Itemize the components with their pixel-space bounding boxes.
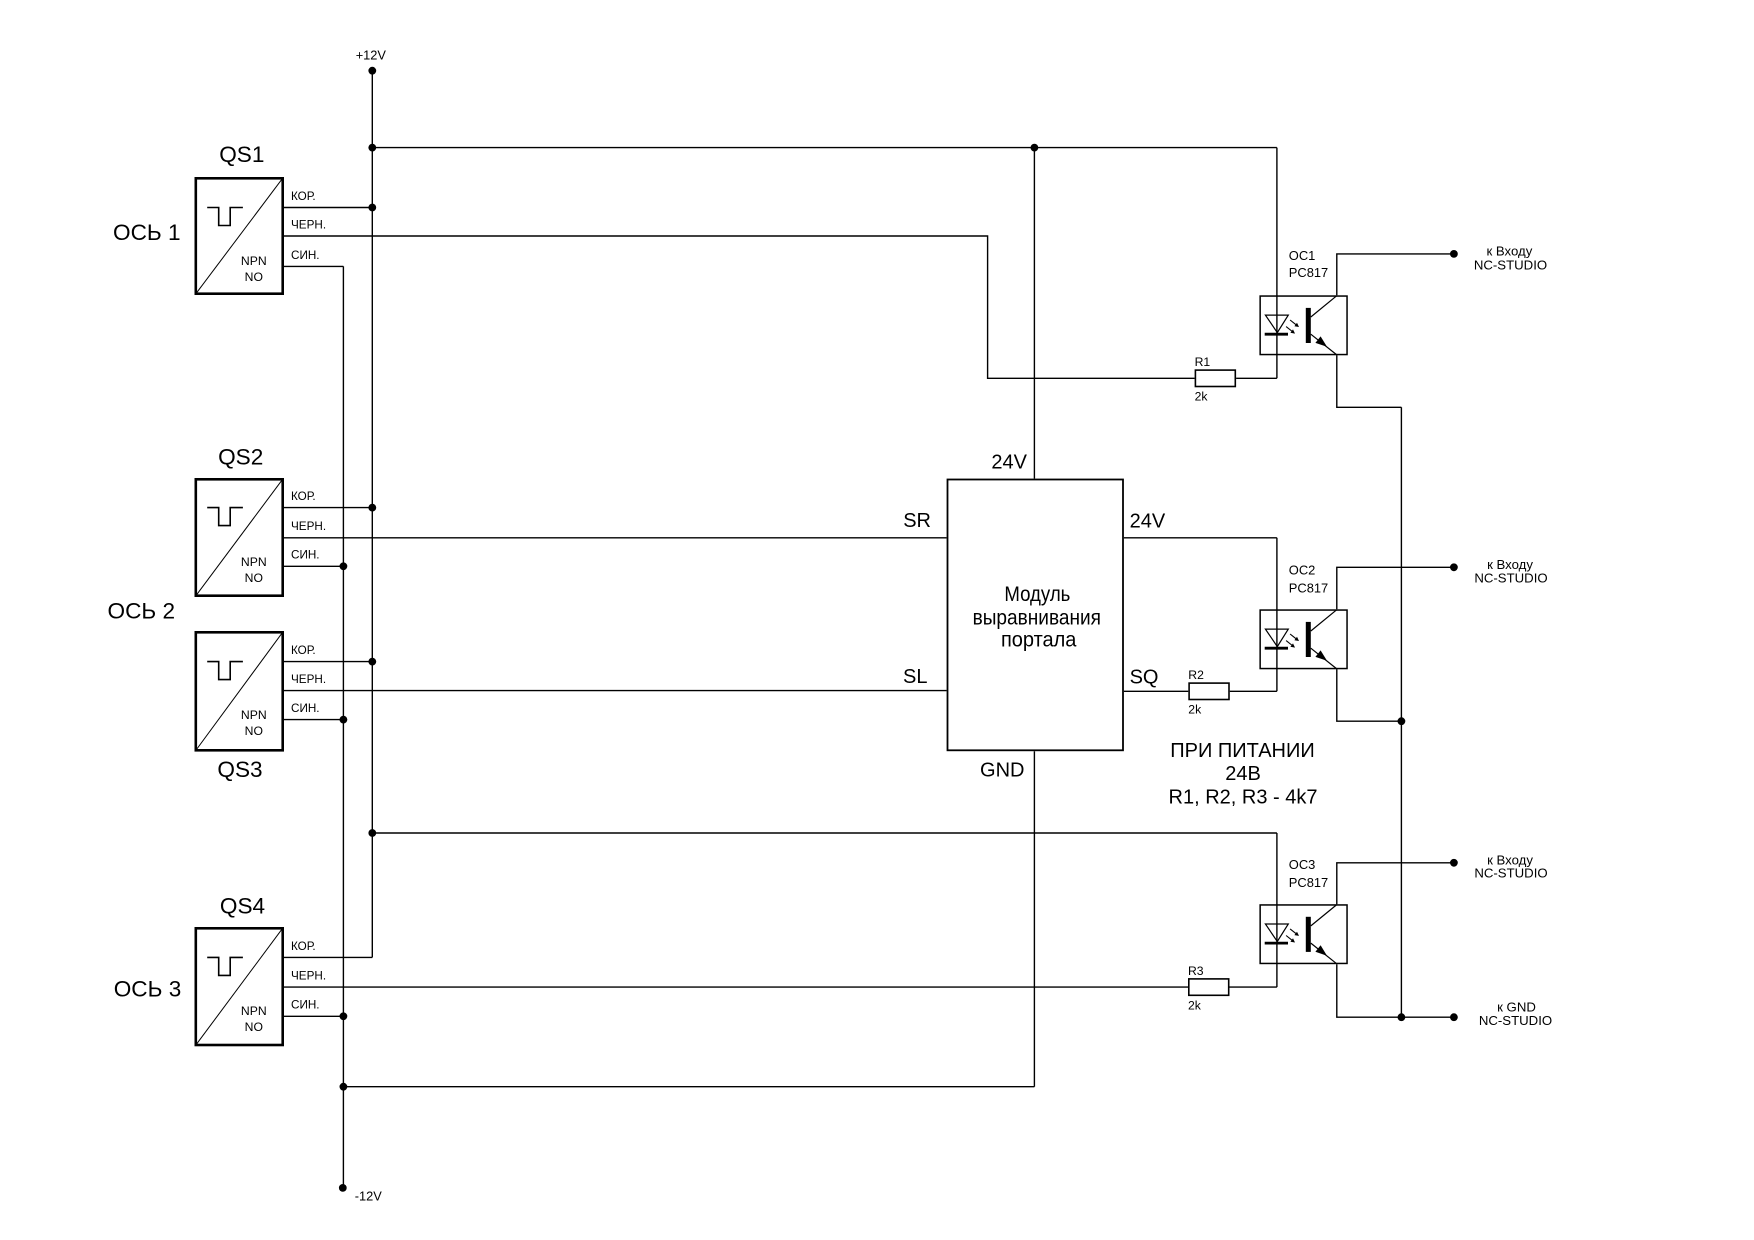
terminal к Входу NC-STUDIO (OC3) bbox=[1450, 859, 1458, 867]
svg-text:R1: R1 bbox=[1195, 355, 1211, 369]
wire top feed from +12V bus to OC1 anode bbox=[372, 147, 1277, 149]
svg-text:24V: 24V bbox=[991, 451, 1027, 473]
label к Входу NC-STUDIO (OC2) bbox=[1474, 557, 1547, 586]
wire QS1 КОР to +12V bus bbox=[284, 207, 372, 209]
svg-text:КОР.: КОР. bbox=[291, 940, 316, 953]
svg-text:NC-STUDIO: NC-STUDIO bbox=[1474, 571, 1547, 586]
svg-text:PC817: PC817 bbox=[1289, 265, 1328, 280]
wire +12V bus to OC3 anode bbox=[372, 832, 1277, 834]
svg-text:NPN: NPN bbox=[241, 1004, 267, 1018]
junction GND return / blue bus bbox=[340, 1083, 348, 1091]
junction QS3 СИН / blue bus bbox=[340, 716, 348, 724]
svg-text:NO: NO bbox=[245, 571, 263, 585]
junction QS2 СИН / blue bus bbox=[340, 562, 348, 570]
wire OC3 emitter to GND terminal bbox=[1337, 964, 1454, 1017]
svg-text:PC817: PC817 bbox=[1289, 580, 1328, 595]
svg-text:2k: 2k bbox=[1188, 998, 1202, 1012]
svg-text:КОР.: КОР. bbox=[291, 644, 316, 657]
svg-text:NPN: NPN bbox=[241, 555, 267, 569]
wire OC3 collector to terminal bbox=[1337, 863, 1454, 904]
wire module 24V output to OC2 anode bbox=[1124, 537, 1277, 539]
svg-text:КОР.: КОР. bbox=[291, 490, 316, 503]
junction QS3 КОР / +12V bus bbox=[368, 658, 376, 666]
sensor QS1 (inductive proximity switch) bbox=[196, 178, 283, 293]
terminal -12V bbox=[339, 1184, 347, 1192]
svg-text:NC-STUDIO: NC-STUDIO bbox=[1474, 866, 1547, 881]
svg-text:SR: SR bbox=[903, 510, 931, 532]
label к GND NC-STUDIO bbox=[1479, 999, 1552, 1028]
wire R2 to LED bbox=[1230, 690, 1277, 692]
wire QS1 ЧЕРН to R1 bbox=[284, 236, 1195, 378]
svg-text:24В: 24В bbox=[1225, 763, 1261, 785]
wire NC-STUDIO GND bus bbox=[1400, 407, 1402, 1017]
svg-text:R3: R3 bbox=[1188, 964, 1204, 978]
svg-text:2k: 2k bbox=[1195, 390, 1209, 404]
terminal к Входу NC-STUDIO (OC2) bbox=[1450, 563, 1458, 571]
sensor QS3 (inductive proximity switch) bbox=[196, 632, 283, 750]
svg-text:SL: SL bbox=[903, 666, 927, 688]
wire OC3 LED anode drop bbox=[1276, 833, 1278, 987]
wire OC1 emitter to GND bus bbox=[1337, 355, 1402, 407]
svg-text:ЧЕРН.: ЧЕРН. bbox=[291, 520, 326, 533]
wire R1 to LED bbox=[1236, 377, 1277, 379]
svg-text:PC817: PC817 bbox=[1289, 875, 1328, 890]
wire QS4 КОР to +12V bus end bbox=[284, 956, 372, 958]
svg-text:ЧЕРН.: ЧЕРН. bbox=[291, 970, 326, 983]
wire OC2 emitter to GND bus bbox=[1337, 669, 1402, 721]
wire QS2 ЧЕРН to module SR bbox=[284, 537, 947, 539]
svg-text:NC-STUDIO: NC-STUDIO bbox=[1474, 258, 1547, 273]
svg-text:КОР.: КОР. bbox=[291, 190, 316, 203]
svg-text:QS4: QS4 bbox=[220, 894, 265, 919]
svg-text:к GND: к GND bbox=[1497, 999, 1536, 1014]
svg-text:к Входу: к Входу bbox=[1487, 557, 1533, 572]
svg-text:СИН.: СИН. bbox=[291, 999, 320, 1012]
label NPN NO (QS3) bbox=[241, 708, 267, 738]
svg-text:ЧЕРН.: ЧЕРН. bbox=[291, 218, 326, 231]
svg-text:SQ: SQ bbox=[1130, 666, 1159, 688]
terminal к Входу NC-STUDIO (OC1) bbox=[1450, 250, 1458, 258]
wire module 24V top pin bbox=[1033, 148, 1035, 479]
wire QS4 СИН to blue bus bbox=[284, 1015, 343, 1017]
svg-text:ОСЬ 2: ОСЬ 2 bbox=[108, 599, 176, 624]
label Модуль выравнивания портала bbox=[973, 582, 1101, 651]
wire module GND pin bbox=[1033, 751, 1035, 1086]
wire QS4 ЧЕРН to R3 bbox=[284, 986, 1188, 988]
svg-text:2k: 2k bbox=[1188, 703, 1202, 717]
svg-text:выравнивания: выравнивания bbox=[973, 605, 1101, 629]
label к Входу NC-STUDIO (OC3) bbox=[1474, 852, 1547, 880]
junction QS1 КОР / +12V bus bbox=[368, 204, 376, 212]
svg-text:-12V: -12V bbox=[355, 1189, 382, 1204]
wire +12V bus vertical bbox=[371, 71, 373, 958]
optocoupler OC2 (PC817) bbox=[1260, 610, 1347, 669]
junction QS2 КОР / +12V bus bbox=[368, 504, 376, 512]
svg-text:СИН.: СИН. bbox=[291, 702, 320, 715]
svg-text:GND: GND bbox=[980, 759, 1024, 781]
svg-text:OC1: OC1 bbox=[1289, 248, 1316, 263]
sensor QS4 (inductive proximity switch) bbox=[196, 928, 283, 1045]
wire QS2 СИН to blue bus bbox=[284, 565, 343, 567]
svg-text:NPN: NPN bbox=[241, 254, 267, 268]
wire GND return to blue bus bbox=[343, 1086, 1034, 1088]
junction OC3 emitter / GND bus bbox=[1398, 1013, 1406, 1021]
wire QS3 ЧЕРН to module SL bbox=[284, 690, 947, 692]
svg-text:портала: портала bbox=[1001, 627, 1077, 651]
svg-text:24V: 24V bbox=[1130, 510, 1166, 532]
wire blue (СИН) bus vertical bbox=[342, 266, 344, 1188]
svg-text:QS2: QS2 bbox=[218, 444, 263, 469]
svg-text:СИН.: СИН. bbox=[291, 549, 320, 562]
svg-text:СИН.: СИН. bbox=[291, 249, 320, 262]
sensor QS2 (inductive proximity switch) bbox=[196, 479, 283, 595]
junction OC2 emitter / GND bus bbox=[1398, 717, 1406, 725]
svg-text:к Входу: к Входу bbox=[1486, 243, 1532, 258]
svg-text:+12V: +12V bbox=[356, 47, 387, 62]
wire OC1 LED anode drop bbox=[1276, 148, 1278, 379]
svg-text:QS3: QS3 bbox=[217, 757, 262, 782]
label NPN NO (QS2) bbox=[241, 555, 267, 585]
label к Входу NC-STUDIO (OC1) bbox=[1474, 243, 1547, 272]
resistor R1 bbox=[1195, 370, 1235, 386]
wire module SQ to R2 bbox=[1124, 690, 1188, 692]
junction OC3 anode feed / +12V bus bbox=[368, 829, 376, 837]
note ПРИ ПИТАНИИ 24В R1, R2, R3 - 4k7 bbox=[1169, 740, 1318, 809]
svg-text:OC3: OC3 bbox=[1289, 857, 1316, 872]
junction top feed / module 24V pin bbox=[1031, 144, 1039, 152]
svg-text:OC2: OC2 bbox=[1289, 563, 1316, 578]
resistor R3 bbox=[1189, 979, 1229, 995]
junction top feed / +12V bus bbox=[368, 144, 376, 152]
svg-text:NO: NO bbox=[245, 1020, 263, 1034]
wire QS2 КОР to +12V bus bbox=[284, 507, 372, 509]
svg-text:NO: NO bbox=[245, 724, 263, 738]
wire QS1 СИН to blue bus bbox=[284, 265, 343, 267]
svg-text:R1, R2, R3 - 4k7: R1, R2, R3 - 4k7 bbox=[1169, 787, 1318, 809]
wire QS3 СИН to blue bus bbox=[284, 719, 343, 721]
wire OC1 collector to terminal bbox=[1337, 254, 1454, 295]
svg-text:NO: NO bbox=[245, 270, 263, 284]
svg-text:Модуль: Модуль bbox=[1004, 582, 1070, 606]
module U1 (portal alignment module) box bbox=[948, 480, 1124, 751]
optocoupler OC3 (PC817) bbox=[1260, 905, 1347, 964]
junction QS4 СИН / blue bus bbox=[340, 1012, 348, 1020]
terminal к GND NC-STUDIO bbox=[1450, 1013, 1458, 1021]
svg-text:NC-STUDIO: NC-STUDIO bbox=[1479, 1013, 1552, 1028]
svg-text:R2: R2 bbox=[1188, 668, 1204, 682]
wire OC2 LED anode drop bbox=[1276, 538, 1278, 692]
svg-text:NPN: NPN bbox=[241, 708, 267, 722]
svg-text:ПРИ ПИТАНИИ: ПРИ ПИТАНИИ bbox=[1170, 740, 1314, 762]
svg-text:ОСЬ 3: ОСЬ 3 bbox=[114, 977, 182, 1002]
resistor R2 bbox=[1189, 683, 1229, 699]
wire OC2 collector to terminal bbox=[1337, 567, 1454, 609]
svg-text:QS1: QS1 bbox=[219, 142, 264, 167]
label NPN NO (QS1) bbox=[241, 254, 267, 284]
optocoupler OC1 (PC817) bbox=[1260, 296, 1347, 355]
svg-text:ЧЕРН.: ЧЕРН. bbox=[291, 673, 326, 686]
terminal +12V bbox=[368, 67, 376, 75]
svg-text:ОСЬ 1: ОСЬ 1 bbox=[113, 220, 181, 245]
label NPN NO (QS4) bbox=[241, 1004, 267, 1034]
wire R3 to LED bbox=[1230, 986, 1277, 988]
wire QS3 КОР to +12V bus bbox=[284, 661, 372, 663]
